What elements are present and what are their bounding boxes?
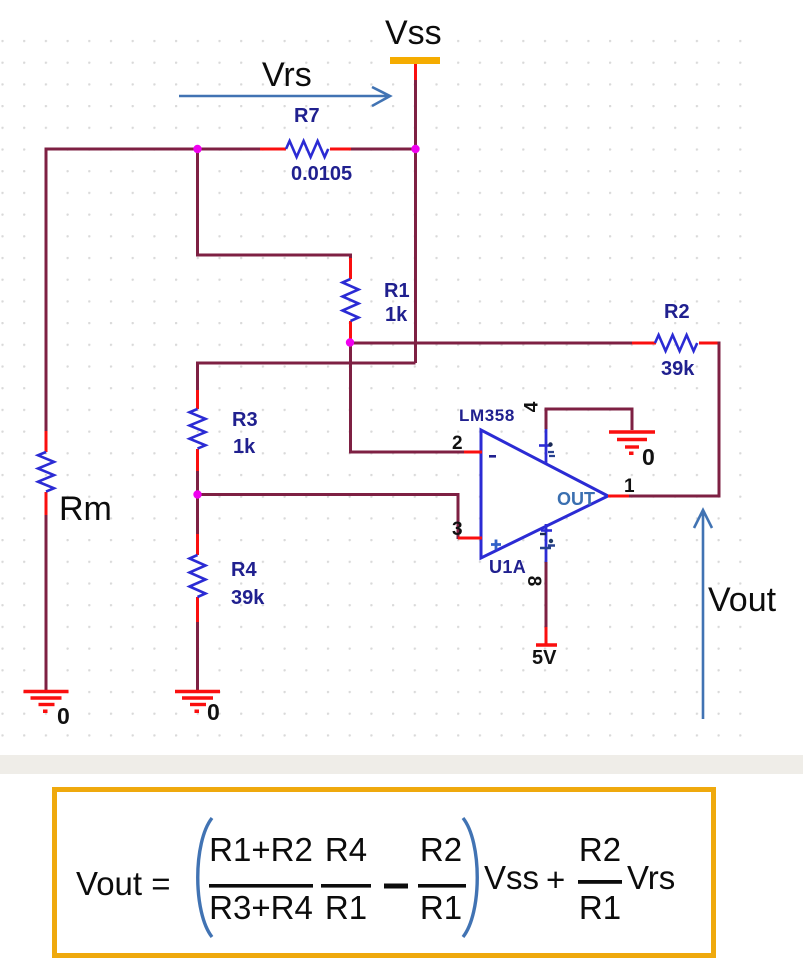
svg-text:R1: R1 bbox=[579, 889, 621, 926]
svg-text:R2: R2 bbox=[579, 831, 621, 868]
formula box bbox=[55, 790, 714, 956]
wire y=343 node to R2 bbox=[349, 342, 633, 345]
wire left vertical from top rail down to Rm bbox=[45, 148, 48, 432]
ground 0 (left) bbox=[24, 692, 70, 730]
svg-text:39k: 39k bbox=[231, 587, 265, 609]
svg-text:5V: 5V bbox=[532, 647, 557, 669]
resistor R7 0.0105 bbox=[260, 105, 352, 185]
wire op-amp pin8 to 5V bbox=[545, 562, 548, 628]
svg-text:R2: R2 bbox=[664, 301, 690, 323]
power supply 5V bbox=[532, 627, 557, 669]
wire from R1 node down and to op-amp pin2 bbox=[351, 342, 465, 452]
wire vertical from node A down bbox=[196, 149, 199, 257]
svg-text:1: 1 bbox=[624, 476, 635, 497]
resistor R1 1k bbox=[343, 258, 410, 342]
wire output horizontal bbox=[628, 495, 721, 498]
wire top horizontal to R7 bbox=[46, 148, 261, 151]
wire horizontal y=363 Vss rail to R3 bbox=[198, 362, 416, 365]
svg-text:Vss: Vss bbox=[385, 14, 442, 52]
svg-text:Vout =: Vout = bbox=[76, 865, 171, 902]
junction node B (R3/R4/pin3) bbox=[193, 490, 201, 498]
junction node R1/R2/pin2 bbox=[346, 338, 354, 346]
wire Rm to ground bbox=[45, 515, 48, 690]
wire R3 bottom to node B bbox=[196, 471, 199, 536]
resistor R2 39k bbox=[632, 301, 719, 380]
svg-text:R1: R1 bbox=[420, 889, 462, 926]
svg-text:4: 4 bbox=[522, 401, 543, 412]
svg-text:R1: R1 bbox=[384, 280, 410, 302]
junction node A (top left) bbox=[193, 145, 201, 153]
svg-text:+: + bbox=[546, 861, 565, 898]
svg-text:3: 3 bbox=[452, 519, 463, 540]
resistor R3 1k bbox=[190, 390, 258, 471]
svg-text:R4: R4 bbox=[325, 831, 367, 868]
wire feedback vertical x=719 bbox=[718, 342, 721, 498]
ground 0 (op-amp) bbox=[609, 432, 655, 470]
svg-text:Vout: Vout bbox=[708, 581, 777, 619]
svg-text:0.0105: 0.0105 bbox=[291, 163, 352, 185]
svg-text:R3: R3 bbox=[232, 409, 258, 431]
wire R3 top drop bbox=[196, 362, 199, 393]
wire horizontal y=255 bbox=[196, 254, 351, 257]
svg-text:Vss: Vss bbox=[484, 859, 539, 896]
svg-text:R1+R2: R1+R2 bbox=[209, 831, 313, 868]
svg-text:Rm: Rm bbox=[59, 490, 112, 528]
resistor Rm bbox=[38, 431, 112, 528]
wire node B to op-amp pin3 bbox=[196, 495, 458, 540]
wire short drop to R1 bbox=[349, 254, 352, 261]
svg-text:0: 0 bbox=[642, 444, 655, 470]
svg-text:39k: 39k bbox=[661, 358, 695, 380]
svg-text:2: 2 bbox=[452, 433, 463, 454]
svg-text:8: 8 bbox=[523, 576, 544, 587]
svg-text:R2: R2 bbox=[420, 831, 462, 868]
wire R4 to ground bbox=[196, 622, 199, 690]
svg-text:R1: R1 bbox=[325, 889, 367, 926]
resistor R4 39k bbox=[190, 534, 266, 622]
wire op-amp pin4 to ground bbox=[546, 409, 632, 430]
svg-text:U1A: U1A bbox=[489, 557, 526, 577]
op-amp U1A LM358 bbox=[452, 401, 635, 586]
svg-text:LM358: LM358 bbox=[459, 406, 515, 425]
svg-text:OUT: OUT bbox=[557, 489, 595, 509]
wire Vss vertical rail bbox=[414, 80, 417, 363]
svg-text:0: 0 bbox=[57, 703, 70, 729]
svg-text:R4: R4 bbox=[231, 559, 257, 581]
annotation arrow Vout bbox=[694, 510, 777, 719]
annotation arrow Vrs bbox=[179, 56, 390, 106]
power symbol Vss bbox=[385, 14, 442, 81]
svg-text:Vrs: Vrs bbox=[262, 56, 312, 94]
svg-text:Vrs: Vrs bbox=[627, 859, 675, 896]
svg-text:0: 0 bbox=[207, 699, 220, 725]
svg-text:1k: 1k bbox=[233, 436, 256, 458]
svg-text:1k: 1k bbox=[385, 304, 408, 326]
svg-text:R3+R4: R3+R4 bbox=[209, 889, 313, 926]
wire R7 right to Vss rail bbox=[350, 148, 415, 151]
ground 0 (middle) bbox=[175, 692, 220, 726]
svg-text:R7: R7 bbox=[294, 105, 320, 127]
junction node at Vss rail / R7 bbox=[411, 145, 419, 153]
